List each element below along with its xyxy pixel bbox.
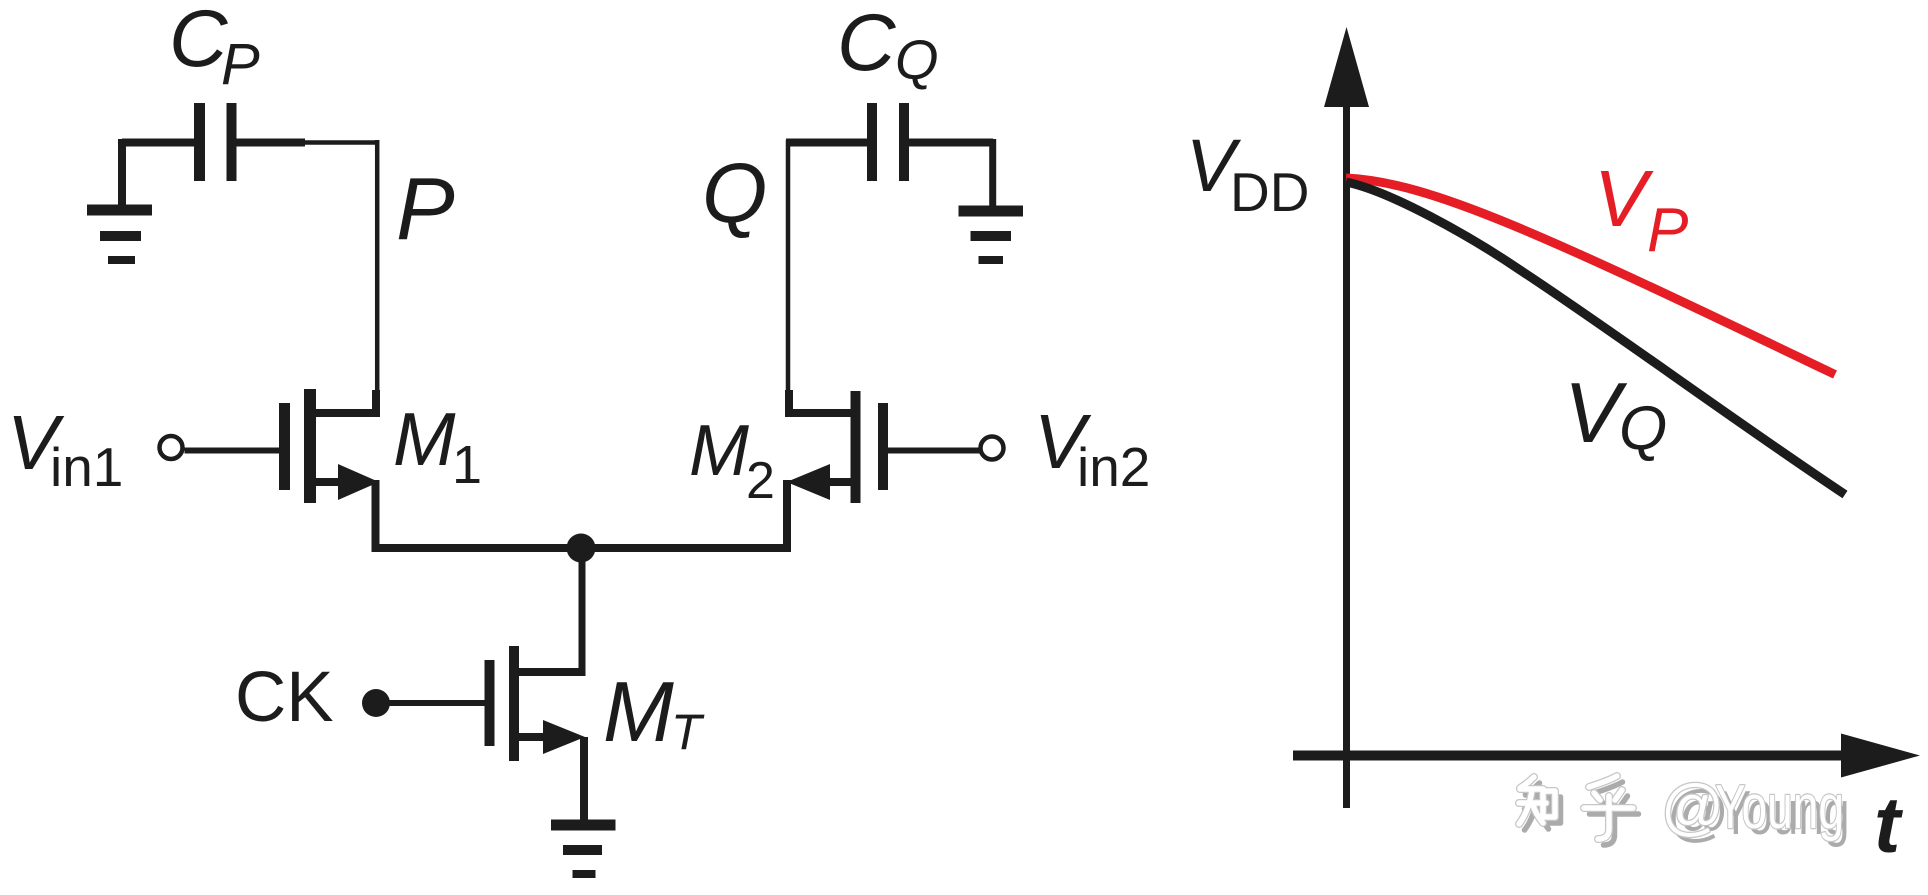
svg-text:in2: in2 (1077, 436, 1150, 498)
svg-text:P: P (221, 32, 260, 97)
svg-text:P: P (396, 159, 455, 258)
svg-text:t: t (1874, 780, 1904, 869)
svg-text:DD: DD (1230, 161, 1309, 223)
svg-text:in1: in1 (50, 436, 123, 498)
svg-text:M: M (603, 665, 674, 760)
svg-text:Q: Q (702, 146, 767, 240)
svg-text:C: C (169, 0, 228, 84)
svg-text:P: P (1647, 196, 1688, 265)
svg-text:C: C (837, 0, 896, 88)
svg-text:Q: Q (1619, 394, 1667, 463)
svg-text:M: M (689, 411, 749, 491)
svg-text:Young: Young (1715, 773, 1844, 842)
svg-text:M: M (393, 397, 456, 481)
svg-text:2: 2 (746, 452, 775, 510)
svg-text:Q: Q (895, 28, 939, 91)
svg-text:T: T (671, 704, 705, 760)
svg-text:CK: CK (235, 658, 334, 737)
svg-text:1: 1 (452, 435, 482, 495)
svg-text:V: V (1594, 154, 1654, 243)
